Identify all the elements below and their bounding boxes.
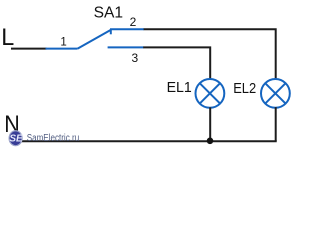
svg-text:SamElectric.ru: SamElectric.ru (27, 133, 79, 144)
wire EL2 to N bus (275, 107, 277, 141)
wire terminal 3 to EL1 (143, 47, 210, 79)
svg-text:3: 3 (132, 51, 139, 65)
wire terminal 2 to EL2 (144, 29, 276, 79)
watermark logo SE (9, 131, 23, 146)
svg-text:SA1: SA1 (94, 5, 124, 22)
switch SA1 pole lead (46, 48, 78, 50)
svg-text:2: 2 (130, 15, 137, 29)
switch SA1 terminal 3 lead (108, 46, 144, 48)
lamp EL2 (261, 79, 290, 108)
svg-text:EL2: EL2 (233, 80, 256, 97)
svg-text:1: 1 (60, 37, 66, 49)
lamp EL1 (196, 79, 225, 108)
switch SA1 lever (78, 30, 111, 49)
wire N bus (10, 140, 277, 142)
wire EL1 to N bus (209, 107, 211, 141)
svg-text:SE: SE (9, 134, 23, 145)
switch SA1 terminal 2 lead (110, 28, 144, 30)
wire L feed (11, 48, 47, 50)
svg-text:L: L (1, 24, 14, 51)
junction node EL1/N (207, 138, 214, 145)
svg-text:EL1: EL1 (167, 79, 192, 96)
switch SA1 pivot tick (110, 29, 112, 34)
